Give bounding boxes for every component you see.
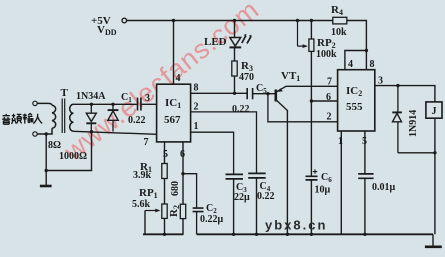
- wire bottom rail left segment: [143, 233, 184, 235]
- node dot rail RP2 top: [310, 19, 313, 22]
- wire ground branch left: [46, 132, 91, 186]
- node dot C6 gnd: [310, 233, 313, 236]
- diode D1 1N34A: [86, 104, 96, 131]
- svg-text:8: 8: [370, 59, 375, 70]
- node dot pin6/C2: [181, 172, 184, 175]
- capacitor C2: [193, 208, 204, 212]
- wire IC1 pin6 chain: [182, 142, 184, 234]
- svg-text:4: 4: [348, 59, 353, 70]
- capacitor C5: [247, 88, 275, 99]
- relay J: [426, 102, 442, 118]
- wire top rail: [127, 21, 367, 51]
- potentiometer RP2: [310, 21, 312, 40]
- svg-text:6: 6: [326, 92, 331, 103]
- svg-text:3.9k: 3.9k: [133, 170, 152, 181]
- svg-text:470: 470: [239, 72, 254, 83]
- svg-text:2: 2: [327, 112, 332, 123]
- svg-text:7: 7: [327, 77, 332, 88]
- capacitor C7 0.01u: [358, 174, 373, 178]
- capacitor C6: [306, 176, 318, 180]
- node dot emitter gnd: [286, 233, 289, 236]
- node dot pin6/RP2: [310, 99, 313, 102]
- svg-text:4: 4: [176, 73, 181, 84]
- resistor R2: [180, 204, 185, 218]
- transformer primary coil: [52, 105, 56, 128]
- svg-text:2: 2: [194, 102, 199, 113]
- node input terminal top: [33, 101, 37, 105]
- wire secondary top rail: [74, 103, 138, 105]
- wire IC1 pin5 chain: [164, 142, 166, 234]
- wire R4 to IC2 pins 4,8: [345, 51, 367, 70]
- wire IC1 pin4 drop: [173, 21, 175, 85]
- LED D: [230, 34, 252, 48]
- label audio input (Chinese): [2, 114, 42, 125]
- capacitor C1: [138, 98, 157, 111]
- node dot R3/pin8: [233, 92, 236, 95]
- node dot input gnd: [45, 132, 48, 135]
- node dot D1 bottom: [90, 130, 93, 133]
- node dot rail RP2 wiper: [296, 19, 299, 22]
- wire C6 branch: [310, 101, 312, 234]
- node dot D2 top: [111, 103, 114, 106]
- svg-text:0.22μ: 0.22μ: [200, 214, 224, 225]
- wire base to IC2 pin2: [268, 94, 338, 122]
- node dot rail C4: [255, 233, 258, 236]
- svg-text:6: 6: [180, 149, 185, 160]
- node dot rail LED: [233, 19, 236, 22]
- transformer secondary coil: [70, 104, 74, 131]
- node dot C5/base: [266, 92, 269, 95]
- wire secondary bottom rail to IC1 pin7: [74, 131, 157, 134]
- diode D2 1N34A: [108, 104, 119, 131]
- capacitor C3: [226, 174, 244, 234]
- node VDD terminal: [122, 18, 127, 23]
- resistor R3: [232, 61, 237, 76]
- wire IC1 pin1 to C3: [191, 132, 234, 174]
- wire IC1 pin8: [191, 92, 248, 94]
- wire IC2 pin6: [311, 100, 337, 102]
- node dot relay/diode bottom: [433, 151, 436, 154]
- wire C2 branch: [183, 174, 197, 235]
- potentiometer RP1: [162, 204, 167, 218]
- op-amp IC1 567: [157, 84, 191, 142]
- resistor R1: [162, 164, 167, 179]
- svg-text:LED: LED: [204, 36, 227, 48]
- node dot rail pin4: [172, 19, 175, 22]
- ground left: [40, 185, 52, 188]
- svg-text:5: 5: [362, 136, 367, 147]
- node dot gnd junction: [45, 169, 48, 172]
- svg-text:0.01μ: 0.01μ: [372, 182, 396, 193]
- wire IC1 pin2 to C4: [191, 112, 257, 173]
- diode 1N914: [392, 86, 402, 153]
- svg-text:8: 8: [194, 83, 199, 94]
- svg-text:T: T: [61, 87, 69, 99]
- svg-text:1000Ω: 1000Ω: [59, 151, 87, 162]
- wire bottom rail right segment: [197, 233, 433, 235]
- node input terminal bottom: [33, 132, 37, 136]
- svg-text:5: 5: [163, 149, 168, 160]
- resistor R4: [333, 17, 347, 24]
- svg-text:8Ω: 8Ω: [48, 140, 61, 151]
- svg-text:680: 680: [170, 181, 181, 196]
- svg-text:0.22: 0.22: [128, 115, 146, 126]
- transformer T: [33, 99, 74, 137]
- svg-text:1: 1: [194, 121, 199, 132]
- wire IC2 pin1: [340, 131, 342, 234]
- svg-text:100k: 100k: [316, 49, 337, 60]
- wire R3 to pin8: [234, 76, 236, 93]
- svg-text:1: 1: [338, 136, 343, 147]
- wire input bottom: [37, 128, 52, 134]
- svg-text:5.6k: 5.6k: [132, 199, 151, 210]
- label +5V VDD: [91, 15, 117, 37]
- wire LED to R3: [234, 47, 236, 61]
- transformer core: [62, 99, 64, 134]
- svg-text:1N914: 1N914: [408, 110, 419, 137]
- svg-text:7: 7: [144, 137, 149, 148]
- transistor VT1: [266, 86, 337, 234]
- svg-text:10k: 10k: [331, 27, 347, 38]
- svg-text:22μ: 22μ: [234, 192, 250, 203]
- node dot D1 top: [90, 103, 93, 106]
- svg-text:10μ: 10μ: [315, 185, 331, 196]
- svg-text:567: 567: [164, 114, 181, 126]
- wire IC2 pin3: [375, 86, 435, 102]
- svg-text:0.22: 0.22: [232, 104, 250, 115]
- capacitor C4: [248, 173, 266, 234]
- node dot pin3/diode: [396, 84, 399, 87]
- svg-text:0.22: 0.22: [257, 191, 275, 202]
- node dot rail C7: [363, 233, 366, 236]
- svg-text:3: 3: [145, 93, 150, 104]
- svg-text:555: 555: [346, 101, 363, 113]
- node dot rail C3: [232, 233, 235, 236]
- node dot RP1 bottom: [163, 233, 166, 236]
- wire input top: [37, 103, 52, 105]
- svg-text:J: J: [432, 106, 437, 117]
- ground right: [432, 234, 434, 246]
- wire LED branch top: [234, 21, 236, 39]
- timer IC2 555: [338, 70, 375, 131]
- wire relay bottom: [398, 118, 435, 234]
- svg-text:ybx8.cn: ybx8.cn: [265, 218, 327, 233]
- svg-text:1N34A: 1N34A: [76, 91, 106, 102]
- node dot pins48: [365, 49, 368, 52]
- svg-text:3: 3: [378, 76, 383, 87]
- wire IC2 pin5 / 0.01u: [364, 131, 366, 234]
